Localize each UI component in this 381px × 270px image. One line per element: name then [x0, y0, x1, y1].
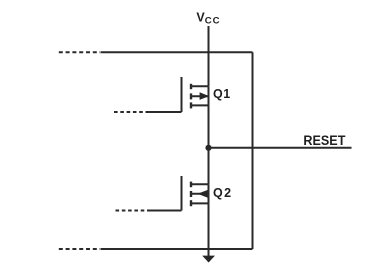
- Q1 source lead: [191, 104, 209, 106]
- Q2 channel segment source: [190, 200, 192, 206]
- net VCC label: [196, 11, 220, 27]
- wire RESET output: [209, 147, 352, 149]
- Q2 right-side vertical (drain-source tie): [208, 184, 210, 203]
- wire bottom boundary solid: [101, 248, 253, 250]
- wire top boundary solid: [101, 51, 253, 53]
- svg-text:Q1: Q1: [213, 87, 231, 101]
- Q1 gate electrode: [181, 77, 183, 112]
- Q2 gate wire dashed (continuation): [116, 210, 148, 212]
- Q2 channel segment body: [190, 191, 192, 197]
- wire node to Q2 drain: [208, 148, 210, 184]
- Q2 gate electrode: [181, 176, 183, 211]
- wire right boundary: [252, 52, 254, 249]
- wire Q2 source to ground: [208, 203, 210, 256]
- svg-text:RESET: RESET: [303, 133, 345, 149]
- node RESET junction: [205, 145, 211, 151]
- Q1 channel segment source: [190, 102, 192, 108]
- ground: [202, 256, 215, 263]
- Q2 gate wire solid: [147, 210, 182, 212]
- svg-text:Q2: Q2: [213, 186, 232, 200]
- Q1 channel segment drain: [190, 84, 192, 89]
- Q1 body lead: [191, 95, 209, 97]
- wire bottom boundary dashed (continuation): [59, 248, 101, 250]
- Q2 body arrow: [198, 190, 208, 198]
- wire top boundary dashed (continuation): [59, 51, 101, 53]
- svg-text:CC: CC: [205, 15, 221, 26]
- Q1 gate wire solid: [147, 111, 182, 113]
- transistor Q2: [116, 176, 233, 211]
- Q2 body lead: [191, 193, 209, 195]
- Q1 channel segment body: [190, 93, 192, 99]
- wire Q1 source to node: [208, 105, 210, 148]
- transistor Q1: [114, 77, 231, 112]
- Q2 channel segment drain: [190, 182, 192, 188]
- wire VCC to Q1 drain: [208, 26, 210, 86]
- Q2 drain lead: [191, 183, 209, 185]
- Q2 source lead: [191, 202, 209, 204]
- Q1 body arrow: [200, 92, 209, 100]
- Q1 right-side vertical (drain-source tie): [208, 86, 210, 105]
- Q1 gate wire dashed (continuation): [114, 111, 147, 113]
- Q1 drain lead: [191, 85, 209, 87]
